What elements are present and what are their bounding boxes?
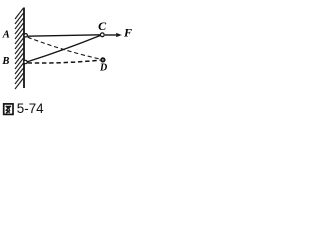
background	[0, 0, 149, 127]
hinge C	[100, 33, 104, 37]
wall vertical line	[23, 8, 25, 89]
svg-text:B: B	[1, 56, 9, 67]
rod B-C (solid)	[27, 36, 100, 62]
hinge A	[24, 34, 27, 37]
point D	[101, 58, 104, 61]
rod A-C (solid)	[28, 35, 100, 36]
svg-text:F: F	[123, 26, 132, 40]
hinge B	[24, 60, 27, 63]
rod B-D (dashed)	[28, 60, 101, 63]
svg-text:A: A	[2, 30, 10, 41]
svg-text:D: D	[99, 63, 107, 74]
caption glyph 图	[4, 104, 13, 115]
svg-text:C: C	[98, 19, 107, 33]
wall hatching	[15, 8, 24, 89]
rod A-D (dashed)	[28, 37, 101, 59]
force F arrow	[105, 34, 119, 36]
svg-text:5-74: 5-74	[17, 101, 44, 116]
